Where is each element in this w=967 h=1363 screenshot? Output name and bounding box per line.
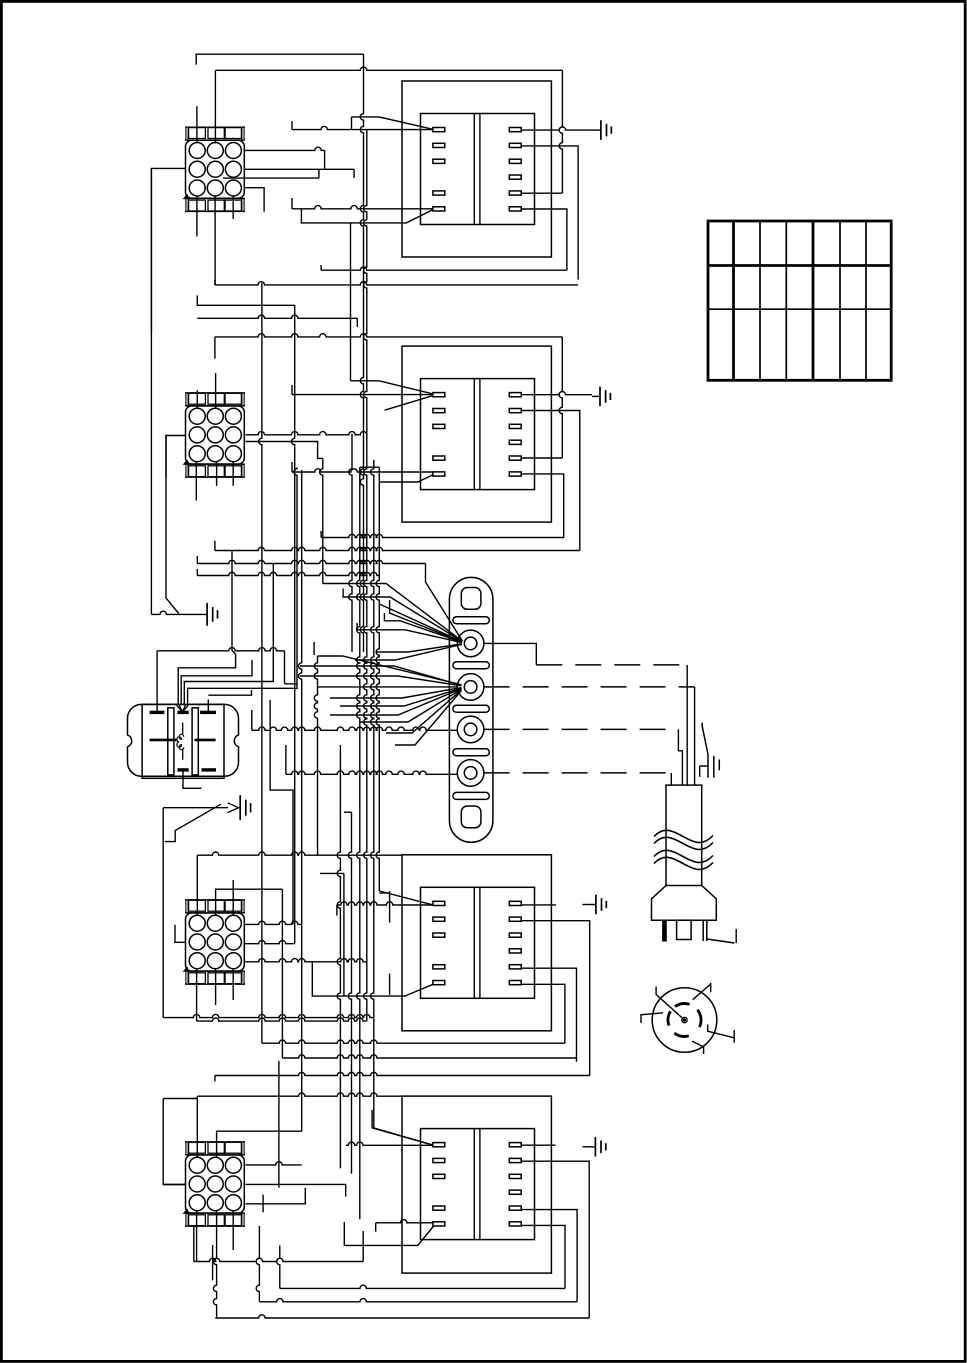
wire strip pin3 line	[251, 710, 253, 730]
bus V359	[357, 467, 360, 1219]
wire J4 row2 right	[246, 1184, 346, 1196]
fan wires to strip pin2	[318, 656, 462, 685]
wire trans t1	[270, 700, 293, 924]
wire D-R6 left up	[277, 1245, 280, 1288]
wire module B loop top	[215, 334, 562, 337]
wire D-R6 loop bottom	[280, 1285, 565, 1288]
wire H305	[197, 295, 294, 305]
wire J1 row2 right	[244, 168, 354, 170]
bus V165-gnd	[166, 436, 179, 614]
relay module C	[402, 855, 551, 1031]
wire J3 row2 right	[244, 941, 295, 944]
wire H1017	[163, 1014, 374, 1017]
wire J4 stub b3	[232, 1211, 234, 1250]
ground G1 (module A)	[593, 129, 601, 131]
wire D-R5 loop	[521, 1210, 577, 1302]
wire J4 stub b1	[196, 1211, 198, 1262]
wire stair s3	[184, 564, 273, 706]
wire A-R6 loop	[521, 209, 567, 270]
wire V301 ext	[301, 1096, 303, 1131]
wire stair s2	[181, 660, 252, 705]
relay module D (bottom)	[402, 1096, 551, 1273]
wire J1 stub b3	[232, 195, 234, 219]
wire J1 row2 left	[151, 168, 186, 330]
wire to C-L6 diag	[312, 962, 433, 996]
wire strip pin2 to plug	[484, 686, 695, 688]
connector J1 (3x3)	[186, 140, 245, 198]
wire J3 stub t3	[232, 880, 234, 916]
wire seg c	[313, 642, 315, 655]
wire J1 stub b1	[196, 195, 198, 236]
ground at plug	[702, 723, 708, 778]
wire C-R6 loop	[521, 984, 565, 1043]
wire module C top ext	[197, 852, 402, 855]
wire B-R2 loop	[521, 411, 580, 551]
wire to C-L1 diag	[379, 891, 433, 905]
bus V363	[360, 54, 363, 652]
wire strip pin3 to plug	[484, 728, 679, 730]
wire H1131	[217, 1131, 302, 1158]
wire trans t4	[389, 891, 391, 923]
wire C-R6 loop bottom	[262, 1040, 565, 1043]
wire J4 stub t1	[196, 1096, 198, 1158]
wire J3 stub t1	[196, 855, 198, 916]
wire H318	[197, 315, 357, 318]
wire J4 row1 right	[246, 1162, 302, 1165]
wire J4 stub b2	[213, 1211, 216, 1318]
relay module B	[402, 346, 551, 522]
bus V373	[371, 460, 374, 1128]
wire B-L5 feed	[360, 467, 434, 482]
wire D-R1 stub	[521, 1144, 555, 1146]
bus V294	[292, 305, 295, 943]
wire J4 row2 left	[163, 1184, 186, 1186]
wire H650	[157, 648, 284, 651]
wire V215 seg2	[214, 337, 216, 359]
wire strip pin4 line	[285, 745, 287, 774]
wire J1 stub t1	[196, 106, 198, 143]
round receptacle	[652, 988, 717, 1053]
wire to A-L1	[292, 126, 433, 129]
wire B-R6 loop	[521, 474, 564, 538]
wire to B-L1 diag2	[385, 396, 433, 411]
wire to A-L6 jog	[291, 198, 293, 209]
oval terminal strip	[449, 577, 493, 842]
wire module D top ext	[197, 1093, 402, 1096]
wire A-R5	[521, 192, 562, 194]
ground G3 (module C)	[583, 904, 596, 906]
wire B-R6 loop bottom	[321, 534, 564, 537]
wire strip pin4 to plug	[484, 772, 672, 774]
bus V379	[376, 467, 379, 891]
wire trans t2	[344, 811, 352, 813]
wire module A loop right	[559, 70, 562, 193]
wire B-R1 to ground	[521, 392, 592, 395]
bus V262	[259, 283, 262, 1043]
wire A-R2 loop left tick	[214, 280, 216, 285]
wire V389 top	[379, 892, 390, 894]
wire bottom loop A	[194, 1258, 363, 1261]
wire J2 stub b2	[216, 461, 218, 486]
bus V317	[314, 656, 317, 850]
wire J2 stub b1	[195, 461, 197, 501]
wire flasher left lead	[151, 611, 207, 614]
bus V349	[349, 434, 352, 652]
wire A-R6 tick	[320, 265, 322, 270]
bus V282	[281, 889, 283, 1058]
wire loop A left up	[193, 1226, 195, 1262]
wire to B-L1	[292, 394, 433, 396]
wire trans t3	[320, 873, 344, 996]
wire G6 diag	[165, 804, 221, 841]
arrow into flasher	[177, 705, 189, 712]
ground G6 (with arrow)	[239, 795, 241, 820]
bus V301	[299, 470, 302, 1096]
wire J2 stub b3	[232, 461, 234, 486]
connector J4 (3x3)	[186, 1155, 245, 1213]
wire A-R6 loop bottom	[321, 267, 567, 270]
wire to A-L6	[292, 206, 433, 209]
wire module B loop right	[559, 337, 562, 458]
wire J1 stub b2	[214, 195, 216, 285]
wire J1 row1	[244, 147, 324, 150]
wire strip pin1 to plug	[484, 643, 537, 665]
wire to D-L1	[346, 1142, 433, 1145]
wire to D-L1 diag	[372, 1110, 433, 1145]
flasher unit	[128, 704, 239, 776]
wire C-R2 tick	[214, 1076, 216, 1082]
wire stub 213	[212, 1245, 214, 1280]
wire stair s4	[294, 467, 297, 684]
wire to B-L1 diag	[351, 223, 434, 394]
connector J2 (3x3)	[186, 406, 245, 464]
wire B-R6 tick	[320, 458, 323, 583]
wire J3 stub b1	[196, 968, 198, 1021]
wire D-R2 loop	[521, 1161, 589, 1318]
wire C-L1 tick	[336, 905, 338, 916]
cable plug	[666, 785, 702, 885]
wire H1021	[197, 1018, 367, 1021]
wire to B-L6 jog	[291, 462, 293, 472]
wire B-R5	[521, 457, 562, 459]
wire C-R5 loop	[521, 968, 576, 1062]
ground G2 (module B)	[592, 395, 600, 397]
wire B-R2 loop bottom	[215, 547, 580, 550]
bus V340	[337, 745, 340, 1168]
wire to D-L6	[376, 1220, 433, 1223]
wire stub V263	[262, 1195, 264, 1213]
ground G4 (module D)	[583, 1146, 596, 1148]
wire C-R5 loop bottom	[282, 1055, 576, 1058]
ground G5 (left mid)	[206, 603, 208, 626]
wire J3 stub b3	[232, 968, 234, 1000]
wire V157	[156, 651, 158, 700]
wire top-left L	[196, 54, 363, 65]
table	[708, 221, 891, 380]
wire to B-L6	[292, 469, 433, 472]
wire D-R5 left up	[256, 1226, 259, 1302]
bus V366	[364, 130, 367, 1022]
wire to A-L6 diag	[301, 209, 433, 223]
wire loop A right up	[362, 1231, 364, 1262]
wire D-R5 loop bottom	[259, 1299, 577, 1302]
wire C-R2 loop bottom	[215, 1072, 590, 1075]
wire V284	[284, 651, 286, 684]
wire D-R6 loop	[521, 1225, 565, 1288]
wire J2 stub t2	[215, 373, 217, 409]
wire stair s1	[178, 551, 235, 706]
wire A-D1 diag	[374, 1128, 433, 1145]
wire J3 row2 left	[175, 925, 186, 943]
connector J3 (3x3)	[186, 913, 245, 971]
wire H889	[216, 889, 283, 916]
wire J3 row1 right	[244, 921, 302, 924]
relay module A (top)	[402, 81, 551, 257]
wire J2 stub t1	[196, 390, 198, 409]
wire J2 row2 right	[246, 442, 323, 459]
wire C-R1 to ground	[521, 904, 556, 906]
wire G6 lead	[163, 807, 228, 809]
wire B-R6 loop tick	[320, 531, 322, 538]
fan wires to strip pin1	[196, 556, 198, 564]
wire J4 row3 right	[246, 1188, 306, 1204]
wire J3 stub b2	[215, 968, 217, 1005]
bus V163 lower	[163, 1099, 197, 1185]
wire D-L6 tick	[375, 1223, 377, 1232]
bus V163	[162, 808, 164, 1018]
wire module A loop top	[215, 67, 562, 70]
wire J1 top stub	[214, 70, 216, 143]
bus V151	[150, 168, 152, 614]
wire A-R2 loop bottom	[215, 282, 578, 285]
wire A-R1 to ground	[521, 127, 592, 130]
wire J1 row3 right	[244, 188, 264, 212]
wire J3 row3 right	[244, 959, 367, 962]
wire V278	[278, 1061, 280, 1188]
wire J2 row2 left	[166, 436, 186, 478]
wire to A-L1 diag	[352, 117, 434, 129]
wire stair s5	[208, 690, 251, 695]
wire A-R2 loop	[521, 146, 578, 280]
wire to C-L1	[337, 902, 433, 905]
wire C-R2 loop	[521, 921, 590, 1076]
wire J2 row1 right	[246, 432, 367, 435]
wire to D-L6 diag	[344, 1222, 433, 1245]
wire D-R2 loop bottom	[215, 1315, 589, 1318]
